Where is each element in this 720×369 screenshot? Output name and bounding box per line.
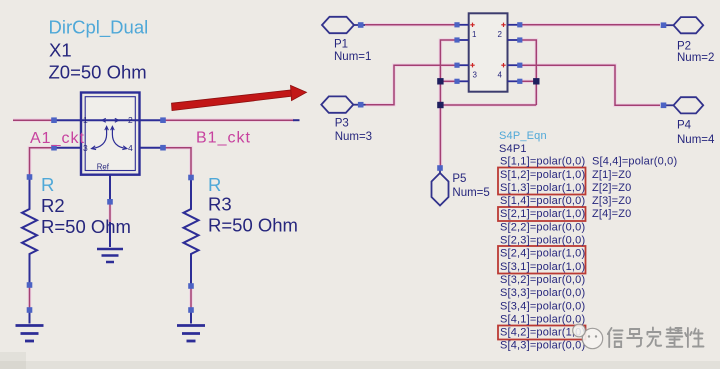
svg-text:R2: R2: [41, 195, 65, 216]
svg-text:R=50 Ohm: R=50 Ohm: [41, 216, 131, 237]
svg-text:Z[4]=Z0: Z[4]=Z0: [592, 208, 631, 220]
svg-text:Z[2]=Z0: Z[2]=Z0: [592, 182, 631, 194]
svg-text:1: 1: [83, 115, 88, 125]
svg-text:S[2,4]=polar(1,0): S[2,4]=polar(1,0): [500, 248, 585, 260]
svg-text:S[2,1]=polar(1,0): S[2,1]=polar(1,0): [500, 208, 585, 220]
svg-text:S[1,3]=polar(1,0): S[1,3]=polar(1,0): [500, 182, 585, 194]
svg-text:S[1,2]=polar(1,0): S[1,2]=polar(1,0): [500, 169, 585, 181]
svg-text:S[4,4]=polar(0,0): S[4,4]=polar(0,0): [592, 156, 677, 168]
svg-text:S[4,3]=polar(0,0): S[4,3]=polar(0,0): [500, 340, 585, 352]
svg-text:P4: P4: [677, 120, 692, 132]
svg-text:S[3,3]=polar(0,0): S[3,3]=polar(0,0): [500, 287, 585, 299]
svg-text:S4P_Eqn: S4P_Eqn: [499, 130, 547, 142]
svg-text:S[1,4]=polar(0,0): S[1,4]=polar(0,0): [500, 195, 585, 207]
svg-text:Num=2: Num=2: [677, 52, 714, 64]
svg-text:R3: R3: [208, 194, 232, 215]
svg-text:Z0=50 Ohm: Z0=50 Ohm: [49, 62, 147, 83]
svg-text:Num=3: Num=3: [335, 131, 372, 143]
svg-text:P1: P1: [334, 39, 348, 51]
svg-text:3: 3: [473, 71, 478, 80]
svg-text:S[3,4]=polar(0,0): S[3,4]=polar(0,0): [500, 300, 585, 312]
svg-text:Ref: Ref: [97, 163, 110, 172]
svg-text:S[3,2]=polar(0,0): S[3,2]=polar(0,0): [500, 274, 585, 286]
svg-text:S4P1: S4P1: [499, 143, 527, 155]
svg-text:A1_ckt: A1_ckt: [30, 130, 85, 147]
svg-text:S[2,2]=polar(0,0): S[2,2]=polar(0,0): [500, 221, 585, 233]
svg-text:4: 4: [498, 71, 503, 80]
svg-text:4: 4: [128, 143, 133, 153]
svg-text:S[4,1]=polar(0,0): S[4,1]=polar(0,0): [500, 313, 585, 325]
svg-text:1: 1: [472, 30, 477, 39]
svg-text:Num=1: Num=1: [334, 51, 371, 63]
svg-text:2: 2: [498, 30, 503, 39]
svg-text:DirCpl_Dual: DirCpl_Dual: [49, 17, 149, 39]
svg-text:P2: P2: [677, 41, 691, 53]
svg-text:B1_ckt: B1_ckt: [196, 130, 251, 147]
svg-text:R=50 Ohm: R=50 Ohm: [208, 215, 298, 236]
svg-text:R: R: [208, 174, 221, 195]
svg-text:Z[1]=Z0: Z[1]=Z0: [592, 169, 631, 181]
svg-text:P5: P5: [452, 173, 466, 185]
svg-text:R: R: [41, 174, 54, 195]
svg-text:Num=5: Num=5: [452, 187, 489, 199]
svg-text:X1: X1: [49, 40, 72, 61]
svg-text:S[3,1]=polar(1,0): S[3,1]=polar(1,0): [500, 261, 585, 273]
svg-text:S[1,1]=polar(0,0): S[1,1]=polar(0,0): [500, 156, 585, 168]
svg-text:S[2,3]=polar(0,0): S[2,3]=polar(0,0): [500, 235, 585, 247]
svg-text:2: 2: [128, 115, 133, 125]
svg-text:Z[3]=Z0: Z[3]=Z0: [592, 195, 631, 207]
svg-text:P3: P3: [335, 118, 349, 130]
svg-text:Num=4: Num=4: [677, 134, 715, 146]
